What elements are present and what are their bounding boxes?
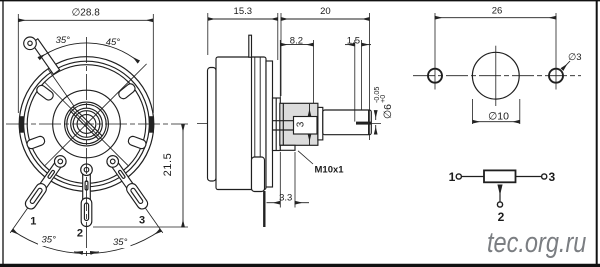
svg-text:35°: 35° — [113, 237, 128, 248]
svg-text:1.5: 1.5 — [347, 36, 360, 47]
svg-text:3: 3 — [139, 215, 145, 227]
svg-text:35°: 35° — [56, 35, 71, 46]
svg-text:20: 20 — [320, 6, 331, 17]
svg-text:45°: 45° — [106, 37, 121, 48]
svg-text:26: 26 — [492, 6, 503, 17]
svg-text:2: 2 — [77, 228, 83, 240]
svg-text:3.3: 3.3 — [279, 193, 292, 204]
svg-text:∅3: ∅3 — [568, 52, 582, 63]
svg-text:∅6: ∅6 — [382, 104, 394, 119]
svg-text:∅28.8: ∅28.8 — [72, 8, 101, 19]
svg-text:35°: 35° — [42, 235, 57, 246]
svg-text:∅10: ∅10 — [488, 111, 509, 123]
svg-text:15.3: 15.3 — [234, 6, 253, 17]
svg-text:-0.05: -0.05 — [372, 87, 381, 103]
svg-text:M10x1: M10x1 — [315, 165, 345, 176]
svg-text:tec.org.ru: tec.org.ru — [487, 226, 587, 259]
svg-text:1: 1 — [30, 216, 36, 228]
svg-text:2: 2 — [498, 210, 505, 224]
svg-text:21.5: 21.5 — [162, 153, 174, 177]
svg-text:3: 3 — [296, 121, 307, 127]
svg-text:8.2: 8.2 — [290, 36, 303, 47]
svg-text:3: 3 — [549, 170, 556, 184]
svg-text:1: 1 — [449, 170, 456, 184]
